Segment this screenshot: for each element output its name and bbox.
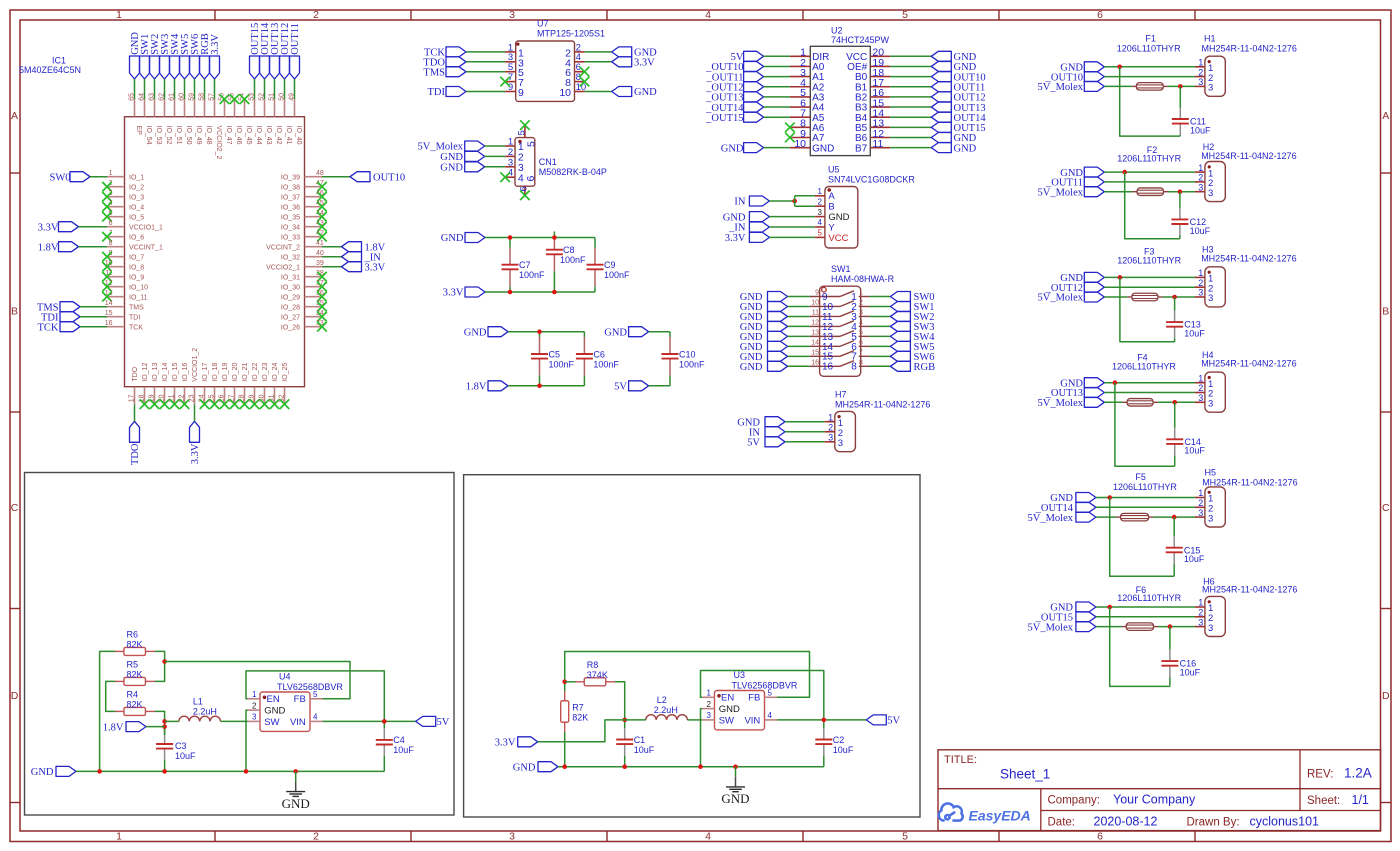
net flag _IN [342, 252, 362, 262]
net flag OUT14 [260, 56, 270, 79]
no-connect pin 32 [280, 399, 290, 409]
H2 pin 3 [1195, 191, 1205, 193]
wire [890, 55, 931, 57]
svg-text:C8: C8 [563, 245, 575, 255]
svg-text:100nF: 100nF [549, 359, 575, 369]
wire [769, 226, 814, 228]
no-connect pin 18 [140, 399, 150, 409]
IC1 pin 43 IO_34 [305, 226, 323, 228]
svg-text:GND: GND [634, 87, 657, 98]
IC1 pin 21 IO_15 [174, 387, 176, 405]
junction [1178, 189, 1183, 194]
svg-text:GND: GND [721, 791, 749, 806]
U2 pin 14 B4 [870, 116, 890, 118]
wire fuse to H pin3 [1158, 401, 1195, 403]
svg-text:6: 6 [859, 340, 863, 347]
svg-text:17: 17 [128, 394, 135, 402]
net flag GND [1076, 602, 1096, 612]
svg-text:IO_45: IO_45 [245, 126, 252, 145]
connector H4 body [1205, 372, 1225, 412]
net flag SW3 [890, 321, 910, 331]
no-connect pin 3 [102, 192, 112, 202]
IC1 pin 8 VCCINT_1 [107, 246, 125, 248]
fuse F5 1206L110THYR [1116, 516, 1121, 518]
IC1 pin 23 VCCIO1_2 [194, 387, 196, 405]
no-connect U7 pin 7 [500, 77, 510, 87]
svg-text:IO_1: IO_1 [129, 174, 144, 181]
capacitor C7 100nF [509, 238, 511, 248]
wire GND rail [76, 770, 384, 772]
wire stub above C8 [553, 232, 555, 238]
wire [485, 237, 595, 239]
IC1 pin 37 IO_30 [305, 286, 323, 288]
wire EN loop [701, 671, 824, 720]
svg-text:U4: U4 [279, 671, 291, 681]
svg-text:1.2A: 1.2A [1344, 766, 1372, 781]
svg-text:4: 4 [818, 218, 823, 227]
svg-text:2: 2 [1198, 173, 1203, 183]
no-connect pin 24 [200, 399, 210, 409]
svg-text:IO_48: IO_48 [205, 126, 212, 145]
IC1 pin 53 IO_44 [254, 99, 256, 117]
net flag GND [538, 762, 558, 772]
net flag OUT15 [250, 56, 260, 79]
svg-text:10uF: 10uF [175, 751, 196, 761]
svg-text:14: 14 [105, 300, 113, 307]
svg-text:1: 1 [828, 412, 833, 422]
net flag SW6 [190, 56, 200, 79]
svg-text:2: 2 [707, 700, 712, 709]
wire [764, 116, 790, 118]
SW1 switch row pins 16-8 [810, 365, 840, 367]
svg-text:IO_29: IO_29 [281, 294, 300, 301]
IC1 pin 16 TCK [107, 326, 125, 328]
no-connect CN1 pin 5 [520, 120, 530, 130]
IC1 pin 36 IO_29 [305, 296, 323, 298]
net flag SW2 [150, 56, 160, 79]
svg-text:IO_34: IO_34 [281, 224, 300, 231]
wire [890, 137, 931, 139]
wire fuse to H pin3 [1162, 296, 1195, 298]
IC1 pin 28 IO_21 [244, 387, 246, 405]
svg-text:VCCIO1_2: VCCIO1_2 [192, 348, 199, 382]
svg-text:MH254R-11-04N2-1276: MH254R-11-04N2-1276 [835, 399, 930, 409]
IC1 pin 41 VCCINT_2 [305, 246, 323, 248]
svg-text:82K: 82K [127, 699, 143, 709]
H6 pin 1 [1195, 606, 1205, 608]
capacitor C3 10uF [164, 727, 166, 733]
net flag GND [1084, 62, 1104, 72]
svg-text:R6: R6 [127, 629, 139, 639]
wire R6 right / R5 right vertical [155, 651, 165, 681]
net flag 5V [765, 437, 785, 447]
svg-text:SW1: SW1 [831, 264, 851, 274]
svg-text:OUT11: OUT11 [290, 23, 301, 55]
resistor R7 82K [564, 691, 566, 701]
svg-text:VCCINT_2: VCCINT_2 [266, 244, 300, 251]
wire [785, 431, 825, 433]
CN1 pin 1 marker dot [518, 140, 521, 143]
svg-text:3: 3 [1198, 393, 1203, 403]
no-connect pin 45 [317, 202, 327, 212]
svg-text:100nF: 100nF [519, 270, 545, 280]
svg-text:3: 3 [1198, 77, 1203, 87]
svg-text:5V_Molex: 5V_Molex [1038, 293, 1084, 304]
net flag _IN [749, 222, 769, 232]
svg-text:IO_18: IO_18 [212, 363, 219, 382]
net flag TMS [446, 67, 466, 77]
SW1 switch row pins 9-1 [810, 296, 840, 298]
IC1 pin 33 IO_26 [305, 326, 323, 328]
junction [1172, 400, 1177, 405]
no-connect pin 31 [270, 399, 280, 409]
svg-text:IO_12: IO_12 [142, 363, 149, 382]
svg-text:3: 3 [1198, 617, 1203, 627]
IC1 pin 32 IO_25 [284, 387, 286, 405]
svg-text:EasyEDA: EasyEDA [969, 808, 1031, 824]
H7 pin 1 marker dot [838, 415, 841, 418]
junction [1117, 65, 1122, 70]
net flag 5V_Molex [465, 141, 485, 151]
U2 pin 2 A0 [790, 65, 810, 67]
svg-text:IO_6: IO_6 [129, 234, 144, 241]
svg-text:5V: 5V [887, 716, 900, 727]
svg-text:IO_30: IO_30 [281, 284, 300, 291]
svg-text:L2: L2 [657, 695, 667, 705]
wire L1 left [165, 720, 179, 722]
svg-text:10uF: 10uF [1184, 329, 1205, 339]
svg-text:H7: H7 [835, 389, 847, 399]
junction [1113, 380, 1118, 385]
svg-text:IO_11: IO_11 [129, 294, 148, 301]
net flag GND [744, 143, 764, 153]
no-connect pin 11 [102, 272, 112, 282]
net flag 5V [744, 51, 764, 61]
SW1 switch row pins 13-5 [810, 335, 840, 337]
wire GND row [1104, 171, 1195, 173]
svg-text:MH254R-11-04N2-1276: MH254R-11-04N2-1276 [1202, 478, 1297, 488]
U7 pin 7 [505, 81, 516, 83]
H5 pin 2 [1195, 506, 1205, 508]
svg-text:3: 3 [818, 208, 823, 217]
svg-text:GND: GND [440, 163, 463, 174]
no-connect pin 30 [260, 399, 270, 409]
U4 pin 4 VIN [310, 720, 323, 722]
U7 pin 1 [505, 51, 516, 53]
net flag GND [465, 151, 485, 161]
wire [79, 226, 108, 228]
svg-text:SW: SW [719, 715, 734, 726]
U7 pin 4 [575, 61, 585, 63]
title block frame [938, 750, 1381, 831]
svg-text:16: 16 [105, 320, 113, 327]
svg-text:3: 3 [508, 157, 513, 168]
wire _OUT14 row [1096, 506, 1195, 508]
svg-text:_OUT15: _OUT15 [705, 113, 743, 124]
svg-text:IO_23: IO_23 [262, 363, 269, 382]
wire _OUT11 row [1104, 181, 1195, 183]
svg-text:2.2uH: 2.2uH [654, 705, 678, 715]
svg-text:1: 1 [252, 690, 257, 699]
wire GND drop to rail [1120, 67, 1181, 136]
wire [80, 326, 107, 328]
svg-text:2: 2 [859, 300, 863, 307]
junction [382, 719, 387, 724]
svg-text:15: 15 [811, 350, 819, 357]
wire [788, 305, 810, 307]
no-connect pin 5 [102, 212, 112, 222]
IC1 pin 4 IO_4 [107, 206, 125, 208]
wire GND row [1104, 276, 1195, 278]
switch SW1 HAM-08HWA-R body [820, 286, 861, 376]
net flag _OUT12 [1084, 282, 1104, 292]
svg-text:IO_51: IO_51 [175, 126, 182, 145]
U3 pin 3 SW [702, 719, 715, 721]
wire [764, 147, 790, 149]
svg-text:1: 1 [1198, 268, 1203, 278]
IC1 pin 40 IO_32 [305, 256, 323, 258]
no-connect pin 56 [220, 94, 230, 104]
capacitor C6 100nF [583, 332, 585, 337]
IC1 pin 60 IO_50 [184, 99, 186, 117]
wire 5V_Molex to fuse [1104, 296, 1127, 298]
svg-text:F1: F1 [1145, 33, 1156, 43]
wire [485, 145, 505, 147]
net flag 5V [629, 381, 649, 391]
wire [485, 155, 505, 157]
net flag GND [931, 51, 951, 61]
net flag RGB [890, 361, 910, 371]
U4 pin 1 marker dot [263, 696, 267, 700]
wire [870, 305, 891, 307]
svg-text:GND: GND [719, 704, 740, 715]
net flag TMS [60, 302, 80, 312]
svg-text:3: 3 [1208, 83, 1213, 94]
svg-text:5V: 5V [747, 438, 760, 449]
svg-text:1: 1 [109, 170, 113, 177]
net flag IN [749, 196, 769, 206]
IC1 pin 22 IO_16 [184, 387, 186, 405]
svg-text:IO_42: IO_42 [275, 126, 282, 145]
svg-text:1206L110THYR: 1206L110THYR [1112, 361, 1176, 371]
svg-text:IO_3: IO_3 [129, 194, 144, 201]
junction [822, 718, 827, 723]
wire GND drop to rail [1115, 383, 1175, 467]
junction [1172, 515, 1177, 520]
IC1 pin 38 IO_31 [305, 276, 323, 278]
no-connect pin 12 [102, 282, 112, 292]
svg-text:1: 1 [707, 689, 712, 698]
capacitor C14 10uF [1174, 402, 1176, 428]
svg-text:15: 15 [105, 310, 113, 317]
svg-text:82K: 82K [572, 713, 588, 723]
wire [80, 316, 107, 318]
U3 pin 1 marker dot [717, 694, 721, 698]
svg-text:1206L110THYR: 1206L110THYR [1117, 154, 1181, 164]
U7 pin 8 [575, 81, 585, 83]
junction [622, 718, 627, 723]
svg-text:TCK: TCK [38, 322, 59, 333]
wire [90, 176, 107, 178]
H7 pin 2 [825, 431, 835, 433]
wire L1 right to SW [221, 720, 248, 722]
svg-text:12: 12 [811, 320, 819, 327]
net flag 3.3V [518, 737, 538, 747]
junction [552, 235, 557, 240]
svg-text:1206L110THYR: 1206L110THYR [1117, 43, 1181, 53]
svg-text:10: 10 [559, 87, 571, 99]
svg-text:VCCIO1_1: VCCIO1_1 [129, 224, 163, 231]
net flag GND [1084, 167, 1104, 177]
svg-text:IO_43: IO_43 [265, 126, 272, 145]
svg-text:2: 2 [1198, 278, 1203, 288]
svg-text:IO_14: IO_14 [162, 363, 169, 382]
U2 pin 20 VCC [870, 55, 890, 57]
connector H5 body [1205, 487, 1225, 527]
wire [890, 106, 931, 108]
svg-text:10uF: 10uF [833, 745, 854, 755]
wire [788, 325, 810, 327]
IC1 pin 64 IO_54 [144, 99, 146, 117]
U2 pin 8 A6 [790, 126, 810, 128]
wire 5V_Molex to fuse [1104, 191, 1132, 193]
U2 pin 17 B1 [870, 86, 890, 88]
svg-text:2: 2 [313, 830, 319, 842]
wire [764, 55, 790, 57]
wire [870, 365, 891, 367]
no-connect pin 55 [230, 94, 240, 104]
net flag GND [612, 47, 632, 57]
net flag RGB [200, 56, 210, 79]
IC1 pin 17 TDO [134, 387, 136, 405]
wire EN loop [246, 671, 384, 722]
no-connect pin 19 [150, 399, 160, 409]
svg-text:9: 9 [815, 290, 819, 297]
H3 pin 1 [1195, 276, 1205, 278]
wire 5V_Molex to fuse [1096, 626, 1122, 628]
wire [79, 246, 108, 248]
IC1 pin 51 IO_42 [274, 99, 276, 117]
net flag 3.3V [612, 57, 632, 67]
svg-text:48: 48 [316, 170, 324, 177]
svg-text:3: 3 [828, 433, 833, 443]
net flag _OUT15 [1076, 612, 1096, 622]
net flag TDO [446, 57, 466, 67]
SW1 pin 9 marker circle [822, 287, 827, 292]
net flag IN [765, 427, 785, 437]
svg-text:Date:: Date: [1048, 816, 1076, 828]
svg-text:IO_27: IO_27 [281, 314, 300, 321]
svg-text:U2: U2 [831, 25, 843, 35]
IC1 pin 30 IO_23 [264, 387, 266, 405]
SW1 switch row pins 15-7 [810, 355, 840, 357]
svg-text:3: 3 [1208, 623, 1213, 634]
SW1 switch row pins 10-2 [810, 305, 840, 307]
svg-text:B: B [828, 202, 834, 213]
svg-text:2: 2 [818, 197, 823, 206]
wire [890, 65, 931, 67]
svg-text:Sheet:: Sheet: [1307, 795, 1340, 807]
IC1 pin 6 VCCIO1_1 [107, 226, 125, 228]
svg-text:B: B [1382, 306, 1389, 318]
wire [322, 266, 342, 268]
IC1 pin 48 IO_39 [305, 176, 323, 178]
U2 pin 1 DIR [790, 55, 810, 57]
connector H6 body [1205, 596, 1225, 636]
connector H7 MH254R-11-04N2-1276 body [835, 411, 856, 451]
CN1 pin 4 [505, 176, 515, 178]
svg-text:H1: H1 [1204, 33, 1216, 43]
wire GND row [1096, 497, 1195, 499]
U7 pin 9 [505, 91, 516, 93]
net flag _OUT11 [744, 72, 764, 82]
net flag GND [768, 341, 788, 351]
svg-text:R7: R7 [572, 703, 584, 713]
no-connect pin 26 [220, 399, 230, 409]
svg-text:GND: GND [464, 327, 487, 338]
svg-text:82K: 82K [127, 639, 143, 649]
wire [890, 76, 931, 78]
resistor R5 82K [114, 680, 124, 682]
wire FB divider top [565, 652, 810, 698]
no-connect pin 37 [317, 282, 327, 292]
svg-text:6: 6 [109, 220, 113, 227]
svg-text:IO_28: IO_28 [281, 304, 300, 311]
IC U4 TLV62568DBVR body [260, 692, 310, 731]
H6 pin 3 [1195, 626, 1205, 628]
svg-text:5V_Molex: 5V_Molex [1028, 513, 1074, 524]
wire [214, 79, 216, 99]
no-connect pin 38 [317, 272, 327, 282]
net flag GND [931, 143, 951, 153]
net flag GND [465, 162, 485, 172]
net flag GND [768, 361, 788, 371]
net flag 5V_Molex [1076, 622, 1096, 632]
fuse F6 1206L110THYR [1122, 626, 1127, 628]
junction [537, 329, 542, 334]
svg-text:11: 11 [872, 138, 883, 150]
svg-text:3.3V: 3.3V [443, 288, 464, 299]
svg-text:CN1: CN1 [539, 157, 557, 167]
IC1 pin 55 IO_46 [234, 99, 236, 117]
IC1 pin 49 IO_40 [294, 99, 296, 117]
wire [204, 79, 206, 99]
wire [264, 79, 266, 99]
connector H1 body [1205, 56, 1225, 96]
svg-text:100nF: 100nF [604, 270, 630, 280]
svg-text:10uF: 10uF [393, 745, 414, 755]
svg-text:1: 1 [1198, 488, 1203, 498]
svg-text:8: 8 [109, 240, 113, 247]
wire [788, 335, 810, 337]
svg-text:FB: FB [748, 693, 760, 704]
U5 pin 2 B [815, 205, 825, 207]
junction FB node [562, 680, 567, 685]
wire [890, 96, 931, 98]
net flag OUT13 [270, 56, 280, 79]
net flag 5V [416, 716, 436, 726]
net flag 5V [866, 715, 886, 725]
power section box 2 [464, 475, 920, 817]
svg-text:TITLE:: TITLE: [944, 754, 977, 766]
svg-text:3.3V: 3.3V [725, 233, 746, 244]
wire R7 bottom to rail [564, 732, 566, 767]
wire _OUT13 row [1104, 392, 1195, 394]
junction [562, 764, 567, 769]
wire [466, 61, 505, 63]
no-connect pin 25 [210, 399, 220, 409]
net flag GND [1084, 272, 1104, 282]
